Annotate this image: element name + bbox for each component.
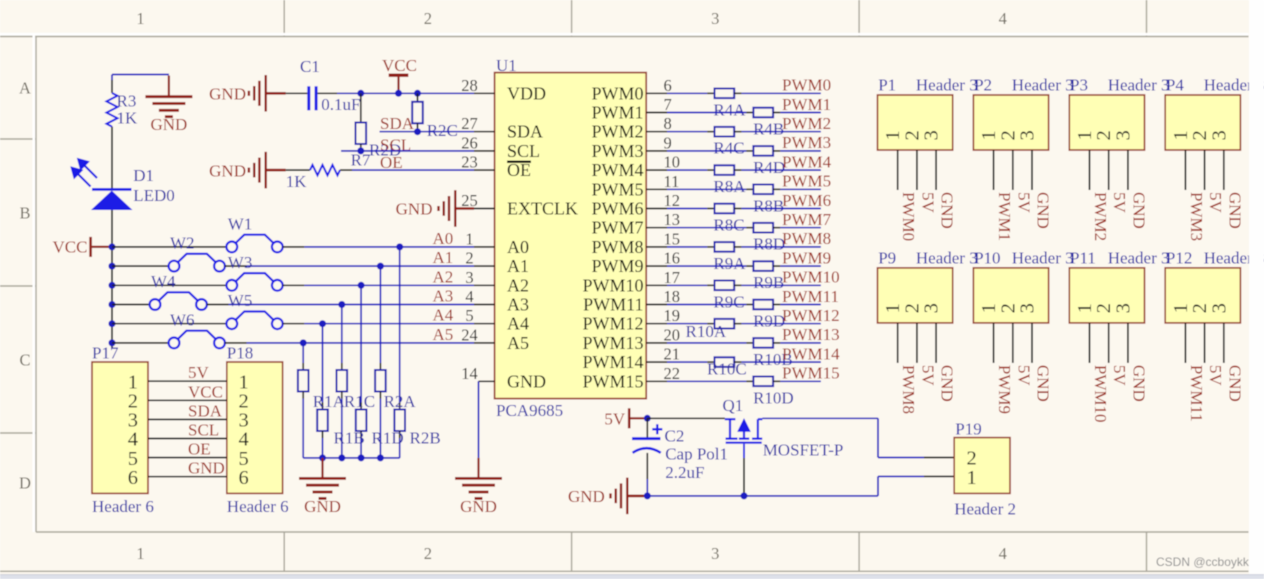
junction row A5 drop — [300, 339, 307, 346]
svg-text:R8C: R8C — [713, 216, 744, 235]
connector P18 body — [227, 362, 283, 493]
svg-text:PWM3: PWM3 — [1187, 192, 1206, 241]
svg-text:PWM2: PWM2 — [591, 122, 643, 142]
svg-text:PWM9: PWM9 — [995, 365, 1014, 414]
svg-text:13: 13 — [664, 210, 681, 229]
svg-text:GND: GND — [188, 459, 225, 478]
junction GND bus drop 1 — [319, 454, 326, 461]
svg-text:24: 24 — [461, 325, 478, 344]
svg-text:PWM8: PWM8 — [591, 237, 643, 257]
svg-text:GND: GND — [396, 200, 433, 219]
svg-text:4: 4 — [465, 287, 473, 306]
resistor R10D — [753, 377, 773, 387]
svg-text:P11: P11 — [1070, 248, 1096, 267]
svg-text:R4B: R4B — [753, 120, 784, 139]
wire PWM11 to resistor R9D — [667, 304, 746, 306]
svg-text:6: 6 — [128, 467, 138, 489]
svg-text:GND: GND — [1034, 192, 1053, 229]
svg-text:R8B: R8B — [753, 196, 784, 215]
svg-text:PCA9685: PCA9685 — [496, 401, 563, 420]
resistor R9B — [753, 261, 773, 271]
svg-text:PWM13: PWM13 — [782, 325, 840, 344]
svg-text:Header 6: Header 6 — [227, 497, 289, 516]
junction row A0 drop — [396, 243, 403, 250]
svg-text:C2: C2 — [665, 427, 685, 446]
wire row A5 jumper to U1 — [225, 342, 247, 344]
resistor R10A — [715, 319, 735, 329]
svg-text:R1C: R1C — [344, 392, 375, 411]
junction Q1 gate/GND wire — [741, 492, 748, 499]
P1 pin 3 stub — [935, 150, 937, 190]
P4 pin 1 stub — [1184, 150, 1186, 190]
resistor R1C — [337, 370, 348, 392]
svg-text:R9B: R9B — [753, 273, 784, 292]
wire PWM14 to resistor R10C — [667, 361, 707, 363]
svg-text:PWM5: PWM5 — [782, 172, 831, 191]
svg-text:3: 3 — [1112, 303, 1134, 313]
svg-text:R4A: R4A — [713, 100, 746, 119]
wire P17 pin 6 to P18 pin 6 — [148, 476, 227, 478]
LED D1 triangle — [91, 191, 133, 210]
svg-text:OE: OE — [380, 153, 403, 172]
P12 pin 3 stub — [1223, 323, 1225, 363]
wire resistor R10C to net label — [734, 361, 741, 363]
P2 pin 2 stub — [1012, 150, 1014, 190]
svg-text:R2C: R2C — [427, 121, 458, 140]
svg-text:3: 3 — [1017, 303, 1039, 313]
svg-text:R10A: R10A — [686, 322, 727, 341]
resistor R4B — [753, 108, 773, 118]
svg-text:PWM4: PWM4 — [591, 160, 643, 180]
resistor R10C — [715, 357, 735, 367]
svg-text:VCC: VCC — [188, 382, 223, 401]
resistor R1... designator R3 leads — [111, 80, 113, 93]
svg-text:P9: P9 — [878, 248, 896, 267]
wire row A1 jumper to U1 — [225, 265, 247, 267]
svg-text:A1: A1 — [433, 248, 454, 267]
svg-text:6: 6 — [664, 76, 672, 95]
power port GND for C2 — [627, 495, 647, 498]
wire C2 to GND — [646, 453, 648, 479]
svg-text:P19: P19 — [955, 420, 981, 439]
svg-text:A4: A4 — [507, 314, 529, 334]
svg-text:R1D: R1D — [372, 429, 404, 448]
svg-text:14: 14 — [461, 364, 478, 383]
svg-text:8: 8 — [664, 114, 672, 133]
svg-text:GND: GND — [1225, 365, 1244, 402]
svg-text:20: 20 — [664, 325, 681, 344]
svg-text:PWM11: PWM11 — [1187, 365, 1206, 422]
svg-text:R10D: R10D — [753, 388, 794, 407]
U1 pin 1 stub — [474, 246, 495, 248]
svg-text:GND: GND — [1034, 365, 1053, 402]
svg-text:PWM4: PWM4 — [782, 152, 832, 171]
wire P17 pin 4 to P18 pin 4 — [148, 438, 227, 440]
resistor R8B — [753, 185, 773, 195]
svg-text:15: 15 — [664, 229, 681, 248]
svg-text:PWM13: PWM13 — [582, 333, 643, 353]
svg-text:5: 5 — [465, 306, 473, 325]
U1 pin 23 stub — [474, 169, 495, 171]
U1 pin 19 stub (PWM12) — [646, 323, 667, 325]
svg-text:P3: P3 — [1070, 76, 1088, 95]
wire PWM15 to resistor R10D — [667, 380, 746, 382]
svg-text:21: 21 — [664, 345, 681, 364]
U1 pin 2 stub — [474, 265, 495, 267]
resistor R9C — [715, 281, 735, 291]
wire drop from A3 to resistor — [341, 305, 343, 364]
U1 pin 24 stub — [474, 342, 495, 344]
svg-text:PWM11: PWM11 — [583, 295, 643, 315]
wire resistor to GND bus (drop 4) — [379, 392, 381, 399]
svg-text:CSDN @ccboykk: CSDN @ccboykk — [1156, 555, 1250, 569]
connector P2 body — [973, 95, 1048, 150]
capacitor C1 — [307, 86, 310, 110]
wire R3 top to GND corner — [112, 74, 169, 76]
svg-text:3: 3 — [1208, 130, 1230, 140]
capacitor C2 plus sign — [652, 424, 662, 434]
wire resistor R9A to net label — [734, 246, 741, 248]
svg-text:A0: A0 — [507, 237, 529, 257]
GND bus wire — [303, 457, 400, 459]
wire PWM5 to resistor R8B — [667, 188, 746, 190]
wire resistor R9B to net label — [773, 265, 780, 267]
svg-text:GND: GND — [568, 487, 605, 506]
svg-text:Header 6: Header 6 — [92, 497, 154, 516]
jumper W1 — [226, 235, 282, 253]
junction GND bus drop 3 — [358, 454, 365, 461]
resistor R4D — [753, 146, 773, 156]
wire resistor to GND bus (drop 1) — [322, 431, 324, 438]
wire PWM4 to resistor R8A — [667, 169, 707, 171]
svg-text:P18: P18 — [227, 344, 253, 363]
svg-text:3: 3 — [921, 130, 943, 140]
svg-text:A1: A1 — [507, 256, 529, 276]
U1 pin 5 stub — [474, 323, 495, 325]
svg-text:PWM6: PWM6 — [591, 199, 643, 219]
junction VDD/R2D — [357, 90, 364, 97]
svg-text:GND: GND — [1225, 192, 1244, 229]
svg-text:3: 3 — [921, 303, 943, 313]
svg-text:PWM9: PWM9 — [591, 256, 643, 276]
junction row A1 drop — [377, 263, 384, 270]
svg-text:GND: GND — [209, 161, 246, 180]
wire row A3 jumper to U1 — [207, 304, 229, 306]
wire resistor R9C to net label — [734, 284, 741, 286]
U1 pin 16 stub (PWM9) — [646, 265, 667, 267]
junction GND bus drop 2 — [338, 454, 345, 461]
wire PWM10 to resistor R9C — [667, 284, 707, 286]
svg-text:PWM1: PWM1 — [591, 103, 643, 123]
svg-text:W2: W2 — [170, 234, 195, 253]
svg-text:R9A: R9A — [713, 254, 746, 273]
svg-text:OE: OE — [188, 440, 211, 459]
wire LED anode down to VCC rail — [111, 210, 113, 247]
svg-text:5V: 5V — [1014, 192, 1033, 214]
connector P19 body — [954, 438, 1010, 494]
svg-text:A3: A3 — [433, 287, 454, 306]
ground symbol resistor network — [321, 458, 323, 477]
junction VCC rail row A0 — [109, 243, 116, 250]
junction VDD/VCC — [395, 90, 402, 97]
resistor R3 zigzag — [107, 93, 118, 127]
resistor R1D — [356, 410, 367, 432]
svg-text:P2: P2 — [974, 76, 992, 95]
connector P12 body — [1165, 268, 1240, 323]
svg-text:A2: A2 — [507, 275, 529, 295]
wire PWM2 to resistor R4C — [667, 131, 707, 133]
svg-text:2: 2 — [424, 544, 432, 563]
wire row A0 jumper to U1 — [283, 246, 305, 248]
svg-text:SCL: SCL — [188, 421, 219, 440]
wire resistor R4C to net label — [734, 131, 741, 133]
U1 pin 17 stub (PWM10) — [646, 284, 667, 286]
svg-text:7: 7 — [664, 95, 672, 114]
svg-text:SDA: SDA — [507, 122, 543, 142]
U1 GND pin 14 wire — [479, 380, 495, 382]
resistor R8C — [715, 204, 735, 214]
svg-text:18: 18 — [664, 287, 681, 306]
svg-text:P12: P12 — [1166, 248, 1192, 267]
svg-text:PWM14: PWM14 — [582, 352, 643, 372]
junction row A3 drop — [338, 301, 345, 308]
wire PWM1 to resistor R4B — [667, 112, 746, 114]
svg-text:5V: 5V — [1206, 192, 1225, 214]
svg-text:3: 3 — [711, 9, 719, 28]
svg-text:5V: 5V — [1110, 192, 1129, 214]
svg-text:R8A: R8A — [713, 177, 746, 196]
wire row A3 rail to jumper W4 — [112, 304, 150, 306]
wire resistor R4D to net label — [773, 150, 780, 152]
wire resistor to GND bus (drop 2) — [341, 392, 343, 399]
junction GND bus drop 4 — [377, 454, 384, 461]
resistor R8A — [715, 165, 735, 175]
U1 pin 22 stub (PWM15) — [646, 380, 667, 382]
U1 pin 4 stub — [474, 304, 495, 306]
connector P10 body — [973, 268, 1048, 323]
resistor R1B — [317, 410, 328, 432]
svg-text:5V: 5V — [918, 192, 937, 214]
svg-text:PWM1: PWM1 — [995, 192, 1014, 241]
wire P17 pin 5 to P18 pin 5 — [148, 457, 227, 459]
svg-text:9: 9 — [664, 133, 672, 152]
P9 pin 1 stub — [897, 323, 899, 363]
U1 pin 15 stub (PWM8) — [646, 246, 667, 248]
wire PWM3 to resistor R4D — [667, 150, 746, 152]
svg-text:Header 3: Header 3 — [916, 76, 978, 95]
svg-text:R4D: R4D — [753, 158, 785, 177]
resistor R4A — [715, 89, 735, 99]
svg-text:R2B: R2B — [410, 429, 441, 448]
svg-text:W6: W6 — [170, 310, 195, 329]
U1 OE overline — [507, 161, 531, 163]
U1 pin 28 stub — [474, 92, 495, 94]
wire resistor R4A to net label — [734, 92, 741, 94]
svg-text:PWM1: PWM1 — [782, 95, 831, 114]
svg-text:B: B — [19, 204, 30, 223]
svg-text:R4C: R4C — [713, 139, 744, 158]
wire row A4 jumper to U1 — [283, 323, 305, 325]
wire resistor R8B to net label — [773, 188, 780, 190]
svg-text:3: 3 — [465, 268, 473, 287]
junction R2C/SDA — [414, 128, 421, 135]
svg-text:Cap Pol1: Cap Pol1 — [665, 444, 728, 463]
wire row A2 rail to jumper W3 — [112, 284, 227, 286]
resistor R8D — [753, 223, 773, 233]
svg-text:5V: 5V — [918, 365, 937, 387]
wire GND net to P19 pin 1 — [647, 495, 878, 497]
svg-text:PWM12: PWM12 — [782, 306, 840, 325]
svg-text:EXTCLK: EXTCLK — [507, 199, 578, 219]
P4 pin 3 stub — [1223, 150, 1225, 190]
U1 pin 26 stub — [474, 150, 495, 152]
svg-text:3: 3 — [1017, 130, 1039, 140]
svg-text:OE: OE — [507, 160, 531, 180]
wire resistor R10A to net label — [734, 323, 741, 325]
U1 pin 13 stub (PWM7) — [646, 227, 667, 229]
junction VCC rail row A2 — [109, 282, 116, 289]
svg-text:PWM3: PWM3 — [591, 141, 643, 161]
svg-text:Q1: Q1 — [723, 396, 744, 415]
power port GND for EXTCLK — [455, 207, 474, 210]
svg-text:GND: GND — [507, 371, 546, 391]
svg-text:SDA: SDA — [188, 401, 223, 420]
svg-text:PWM0: PWM0 — [591, 83, 643, 103]
svg-text:MOSFET-P: MOSFET-P — [763, 441, 844, 460]
svg-text:A2: A2 — [433, 267, 454, 286]
P11 pin 1 stub — [1089, 323, 1091, 363]
svg-text:A3: A3 — [507, 295, 529, 315]
P3 pin 1 stub — [1089, 150, 1091, 190]
svg-text:6: 6 — [239, 467, 249, 489]
capacitor C2 positive plate — [646, 418, 648, 438]
U1 pin 12 stub (PWM6) — [646, 208, 667, 210]
wire P17 pin 1 to P18 pin 1 — [148, 380, 227, 382]
svg-text:PWM11: PWM11 — [782, 287, 839, 306]
svg-text:VCC: VCC — [53, 237, 88, 256]
svg-text:D1: D1 — [133, 166, 154, 185]
IC U1 PCA9685 body — [495, 73, 647, 399]
svg-text:PWM2: PWM2 — [1091, 192, 1110, 241]
junction VCC rail row A3 — [109, 301, 116, 308]
connector P11 body — [1069, 268, 1144, 323]
U1 pin 10 stub (PWM4) — [646, 169, 667, 171]
svg-text:C: C — [19, 351, 30, 370]
resistor R2C — [417, 93, 419, 102]
svg-text:GND: GND — [304, 497, 341, 516]
svg-text:4: 4 — [999, 9, 1007, 28]
wire resistor R4B to net label — [773, 112, 780, 114]
ground symbol U1 pin 14 — [477, 458, 479, 477]
wire Q1 drain to P19 pin 2 — [762, 417, 878, 419]
wire drop from A4 to resistor — [322, 324, 324, 403]
svg-text:P10: P10 — [974, 248, 1000, 267]
right panel strip — [1249, 0, 1264, 579]
svg-text:P4: P4 — [1166, 76, 1184, 95]
junction VDD/R2C — [414, 90, 421, 97]
svg-text:Header 3: Header 3 — [916, 248, 978, 267]
svg-text:PWM8: PWM8 — [782, 229, 831, 248]
wire PWM6 to resistor R8C — [667, 208, 707, 210]
junction C2/GND — [644, 492, 651, 499]
svg-text:R1B: R1B — [334, 429, 365, 448]
resistor R2B — [394, 410, 405, 432]
jumper W2 — [169, 254, 225, 272]
U1 pin 21 stub (PWM14) — [646, 361, 667, 363]
U1 pin 3 stub — [474, 284, 495, 286]
svg-text:W1: W1 — [228, 214, 253, 233]
P1 pin 1 stub — [897, 150, 899, 190]
svg-text:PWM10: PWM10 — [782, 268, 840, 287]
bottom scrollbar strip — [0, 575, 1264, 579]
power port GND for R7 — [266, 169, 286, 172]
junction VCC rail row A5 — [109, 339, 116, 346]
svg-text:SCL: SCL — [507, 141, 540, 161]
U1 pin 25 stub — [474, 208, 495, 210]
svg-text:25: 25 — [461, 191, 478, 210]
svg-text:5V: 5V — [1206, 365, 1225, 387]
svg-text:GND: GND — [938, 365, 957, 402]
svg-text:PWM14: PWM14 — [782, 344, 840, 363]
svg-text:19: 19 — [664, 306, 681, 325]
junction row A4 drop — [319, 320, 326, 327]
svg-text:R9D: R9D — [753, 312, 785, 331]
P9 pin 3 stub — [935, 323, 937, 363]
connector P17 body — [92, 362, 148, 493]
ground symbol near R3 — [168, 76, 170, 96]
svg-text:W3: W3 — [228, 253, 253, 272]
svg-text:R7: R7 — [351, 150, 371, 169]
svg-text:A5: A5 — [507, 333, 529, 353]
svg-text:Header 2: Header 2 — [954, 500, 1016, 519]
U1 pin 11 stub (PWM5) — [646, 188, 667, 190]
wire 5V to Q1 source — [647, 417, 725, 419]
svg-text:GND: GND — [1129, 365, 1148, 402]
U1 pin 20 stub (PWM13) — [646, 342, 667, 344]
wire drop from A2 to resistor — [360, 285, 362, 402]
svg-text:U1: U1 — [496, 56, 517, 75]
svg-text:5V: 5V — [188, 363, 210, 382]
svg-text:GND: GND — [209, 85, 246, 104]
svg-text:PWM7: PWM7 — [782, 210, 832, 229]
svg-text:VDD: VDD — [507, 83, 546, 103]
svg-text:R10C: R10C — [707, 360, 747, 379]
wire resistor R10D to net label — [773, 380, 780, 382]
wire resistor R8C to net label — [734, 208, 741, 210]
LED D1 cathode bar — [92, 188, 132, 191]
connector P3 body — [1069, 95, 1144, 150]
svg-text:Header 3: Header 3 — [1012, 248, 1074, 267]
P9 pin 2 stub — [916, 323, 918, 363]
resistor R2D — [360, 93, 362, 122]
wire row A1 rail to jumper W2 — [112, 265, 169, 267]
wire PWM0 to resistor R4A — [667, 92, 707, 94]
svg-text:GND: GND — [938, 192, 957, 229]
svg-text:16: 16 — [664, 249, 681, 268]
svg-text:5V: 5V — [1110, 365, 1129, 387]
resistor R9A — [715, 242, 735, 252]
svg-text:PWM9: PWM9 — [782, 248, 831, 267]
jumper W5 — [226, 312, 282, 330]
wire PWM8 to resistor R9A — [667, 246, 707, 248]
junction R2D/SCL — [357, 147, 364, 154]
svg-text:28: 28 — [461, 76, 478, 95]
P11 pin 3 stub — [1127, 323, 1129, 363]
svg-text:3: 3 — [1208, 303, 1230, 313]
svg-text:SDA: SDA — [380, 114, 415, 133]
svg-text:PWM15: PWM15 — [782, 364, 840, 383]
wire SCL to U1 pin 26 — [341, 150, 474, 152]
